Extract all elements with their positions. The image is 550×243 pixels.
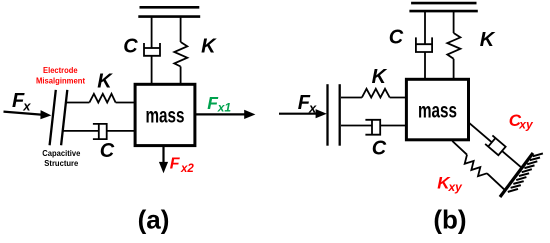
damper C (b, horizontal) — [341, 120, 406, 135]
svg-text:F: F — [170, 156, 181, 173]
svg-text:Capacitive: Capacitive — [42, 148, 80, 158]
force arrow Fx1 (a, right) — [195, 110, 256, 119]
electrode line 1 (a) — [50, 90, 56, 145]
spring K (a, vertical) — [174, 17, 187, 85]
svg-text:mass: mass — [418, 100, 457, 123]
svg-text:C: C — [123, 35, 138, 57]
svg-text:K: K — [201, 35, 217, 57]
svg-text:Electrode: Electrode — [43, 65, 78, 75]
spring K (a, horizontal) — [66, 94, 135, 103]
electrode line 1 (b) — [326, 84, 328, 146]
svg-text:Structure: Structure — [44, 158, 78, 168]
svg-text:(a): (a) — [138, 205, 170, 235]
label Capacitive Structure — [42, 148, 80, 168]
electrode line 2 (a) — [61, 90, 67, 145]
svg-text:x2: x2 — [180, 163, 194, 175]
svg-text:C: C — [389, 27, 404, 49]
svg-text:(b): (b) — [433, 205, 466, 235]
svg-text:mass: mass — [146, 105, 185, 128]
svg-text:K: K — [480, 29, 496, 51]
force arrow Fx (b) — [279, 109, 327, 118]
damper C (a, horizontal) — [63, 124, 136, 139]
svg-text:xy: xy — [518, 118, 534, 132]
damper C (b, vertical) — [416, 11, 432, 79]
spring Kxy (diagonal) — [447, 141, 505, 195]
fixed support (a) — [138, 7, 200, 16]
svg-text:C: C — [100, 140, 115, 162]
svg-text:K: K — [372, 66, 388, 88]
svg-text:x: x — [308, 100, 317, 115]
svg-text:xy: xy — [448, 180, 464, 194]
fixed support (b) — [409, 3, 477, 11]
force arrow Fx2 (a, down) — [159, 146, 168, 174]
force arrow Fx (a) — [4, 110, 52, 119]
damper C (a, vertical) — [144, 17, 160, 85]
svg-text:x: x — [22, 98, 31, 113]
svg-text:x1: x1 — [217, 100, 232, 114]
wall hatching — [508, 153, 543, 192]
wall (b, hatched) — [500, 153, 533, 197]
svg-text:Misalginment: Misalginment — [36, 76, 85, 86]
label Electrode Misalginment — [36, 65, 85, 86]
mass (b) — [406, 79, 468, 140]
spring K (b, horizontal) — [341, 89, 406, 98]
electrode line 2 (b) — [339, 84, 341, 146]
damper Cxy (diagonal) — [465, 119, 524, 172]
spring K (b, vertical) — [447, 11, 460, 79]
mass (a) — [135, 84, 195, 145]
svg-text:K: K — [97, 71, 113, 93]
svg-text:C: C — [372, 138, 387, 160]
